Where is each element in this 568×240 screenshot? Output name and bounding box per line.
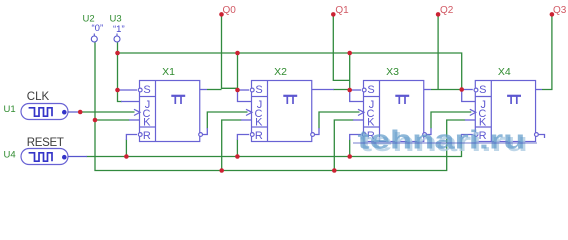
svg-text:X2: X2	[274, 66, 287, 78]
svg-text:Q3: Q3	[553, 5, 567, 16]
svg-text:tehnari.ru: tehnari.ru	[358, 125, 526, 155]
svg-text:X3: X3	[386, 66, 399, 78]
svg-text:“1”: “1”	[113, 24, 125, 35]
svg-text:R: R	[143, 130, 151, 142]
svg-text:X4: X4	[498, 66, 511, 78]
svg-text:K: K	[143, 116, 151, 128]
svg-text:Q2: Q2	[440, 5, 454, 16]
svg-text:U3: U3	[110, 14, 122, 25]
svg-text:S: S	[143, 84, 150, 96]
svg-text:K: K	[255, 116, 263, 128]
svg-text:S: S	[479, 84, 486, 96]
svg-text:X1: X1	[162, 66, 175, 78]
svg-text:U1: U1	[4, 104, 16, 115]
svg-text:Q0: Q0	[223, 5, 237, 16]
svg-text:U4: U4	[4, 150, 16, 161]
svg-text:Q1: Q1	[335, 5, 349, 16]
svg-text:S: S	[255, 84, 262, 96]
svg-text:S: S	[367, 84, 374, 96]
svg-text:RESET: RESET	[27, 137, 64, 149]
svg-text:CLK: CLK	[27, 91, 50, 103]
svg-text:“0”: “0”	[92, 23, 104, 34]
svg-text:R: R	[255, 130, 263, 142]
